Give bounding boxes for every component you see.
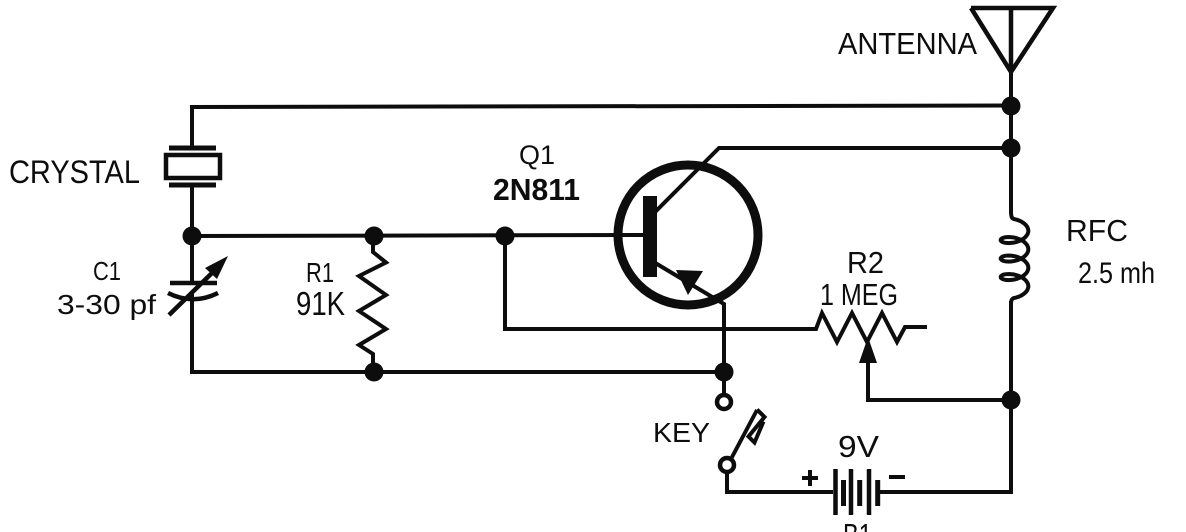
wire battery to right rail [880, 490, 1011, 494]
svg-text:Q1: Q1 [519, 140, 555, 170]
wire left rail upper [190, 236, 194, 283]
wire bottom rail [192, 370, 724, 374]
battery B1 [836, 469, 878, 515]
svg-text:R2: R2 [847, 245, 884, 280]
node dot R1 bottom [365, 363, 384, 382]
node dot crystal-C1 junction [183, 227, 202, 246]
node dot R1 top [365, 227, 384, 246]
wire key top stub [722, 372, 726, 394]
svg-text:C1: C1 [93, 256, 121, 286]
wire right rail below coil [1009, 303, 1013, 492]
resistor R1 [359, 236, 386, 372]
wire crystal stub [190, 185, 194, 236]
svg-text:RFC: RFC [1066, 213, 1128, 248]
node dot collector rail [1002, 139, 1021, 158]
wire key bottom to battery [727, 473, 831, 492]
wire R2 branch [505, 236, 810, 329]
key switch [717, 395, 765, 472]
potentiometer R2 [810, 313, 1011, 400]
wire top rail [192, 106, 1011, 149]
node dot wiper rail [1002, 391, 1021, 410]
svg-text:2.5 mh: 2.5 mh [1078, 257, 1155, 290]
svg-text:B1: B1 [843, 517, 872, 532]
svg-text:KEY: KEY [653, 417, 710, 448]
antenna [971, 8, 1053, 72]
svg-text:91K: 91K [296, 285, 345, 322]
node dot emitter-key junction [715, 363, 734, 382]
crystal X1 [166, 148, 220, 185]
node dot R2 branch [496, 227, 515, 246]
wire collector to antenna rail [657, 148, 1011, 210]
svg-text:2N811: 2N811 [493, 172, 580, 207]
wire right rail [1009, 72, 1013, 206]
svg-text:ANTENNA: ANTENNA [838, 27, 978, 61]
inductor RFC coil [1001, 200, 1029, 310]
svg-text:9V: 9V [838, 429, 879, 464]
battery minus sign [889, 475, 905, 479]
svg-text:1 MEG: 1 MEG [820, 277, 898, 312]
svg-text:R1: R1 [306, 257, 334, 288]
wire base rail [192, 235, 644, 236]
capacitor C1 [168, 256, 228, 315]
battery plus sign [802, 470, 818, 486]
node dot antenna top rail [1002, 97, 1021, 116]
wire left rail lower [190, 296, 194, 372]
svg-text:CRYSTAL: CRYSTAL [9, 154, 140, 190]
wire emitter drop [657, 264, 724, 372]
transistor Q1 [618, 165, 758, 305]
svg-text:3-30 pf: 3-30 pf [57, 289, 156, 320]
